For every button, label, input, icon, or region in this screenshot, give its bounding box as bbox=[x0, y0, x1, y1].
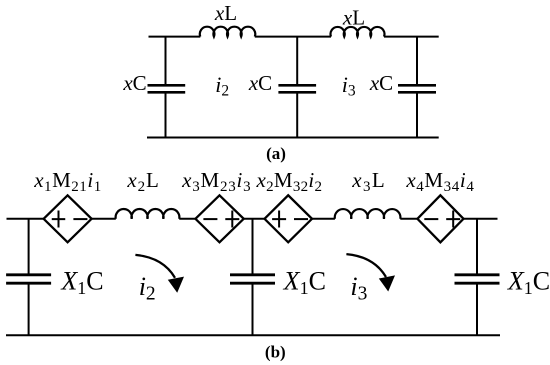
svg-text:i3: i3 bbox=[350, 272, 367, 305]
svg-text:X1C: X1C bbox=[507, 267, 550, 299]
svg-text:x2M32i2: x2M32i2 bbox=[256, 168, 323, 195]
svg-text:xC: xC bbox=[122, 71, 146, 95]
svg-text:i2: i2 bbox=[139, 272, 156, 305]
svg-text:X1C: X1C bbox=[60, 267, 103, 299]
svg-text:X1C: X1C bbox=[283, 267, 326, 299]
svg-text:(b): (b) bbox=[265, 343, 286, 362]
svg-text:(a): (a) bbox=[266, 144, 286, 163]
svg-text:xL: xL bbox=[214, 1, 237, 25]
svg-text:x3M23i3: x3M23i3 bbox=[181, 168, 251, 195]
svg-text:i2: i2 bbox=[215, 72, 229, 100]
svg-text:x3L: x3L bbox=[351, 168, 385, 195]
svg-text:x4M34i4: x4M34i4 bbox=[405, 168, 474, 195]
svg-text:xC: xC bbox=[369, 71, 393, 95]
svg-text:i3: i3 bbox=[342, 72, 356, 100]
svg-text:xL: xL bbox=[342, 6, 365, 30]
svg-text:x2L: x2L bbox=[126, 168, 159, 195]
svg-text:x1M21i1: x1M21i1 bbox=[33, 168, 101, 195]
svg-text:xC: xC bbox=[248, 71, 272, 95]
